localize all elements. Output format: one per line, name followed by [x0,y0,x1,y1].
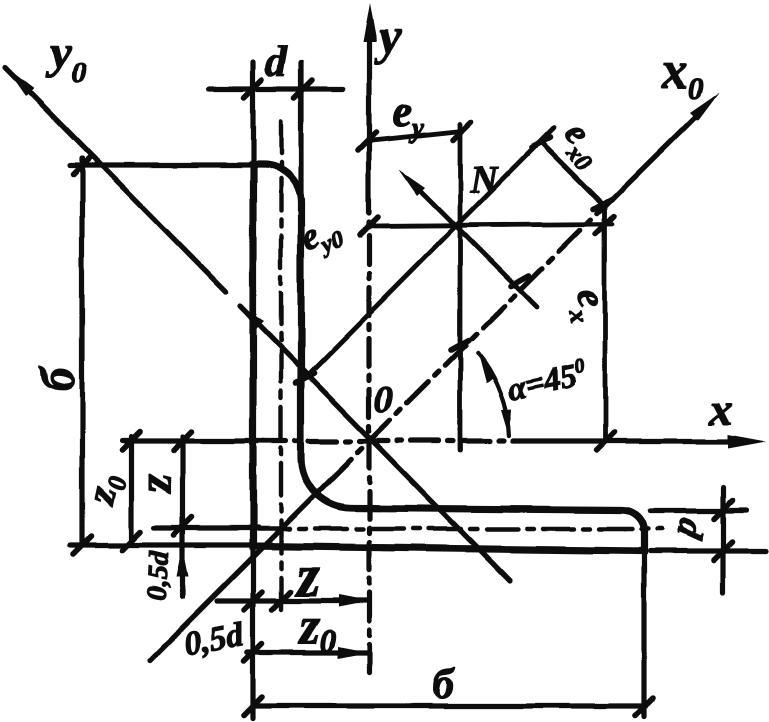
svg-text:x: x [709,383,733,434]
svg-text:б: б [433,662,456,708]
svg-text:z: z [129,474,182,495]
svg-text:б: б [32,365,85,391]
svg-text:0,5d: 0,5d [142,550,176,602]
svg-text:d: d [265,37,288,86]
svg-text:0: 0 [374,379,393,421]
svg-text:y: y [374,9,402,65]
svg-text:N: N [469,159,499,201]
